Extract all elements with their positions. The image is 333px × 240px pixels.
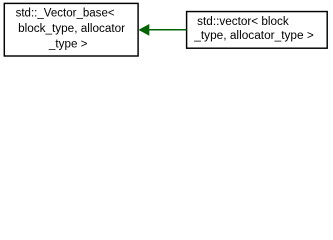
label line 1: std::vector< block	[193, 16, 314, 42]
svg-text:std::_Vector_base<: std::_Vector_base<	[16, 7, 115, 19]
label line 1: std::_Vector_base<	[16, 7, 126, 50]
inheritance edge arrowhead pointing at base class	[139, 25, 149, 36]
svg-text:_type >: _type >	[48, 39, 88, 51]
node box: std::vector< block_type, allocator_type >	[187, 12, 328, 49]
svg-text:std::vector< block: std::vector< block	[197, 16, 289, 28]
inheritance edge (protected, dark green) shaft	[149, 29, 187, 31]
svg-text:block_type, allocator: block_type, allocator	[18, 23, 125, 35]
node box: std::_Vector_base< block_type, allocator_type >	[4, 3, 138, 56]
svg-text:_type, allocator_type >: _type, allocator_type >	[193, 30, 314, 42]
